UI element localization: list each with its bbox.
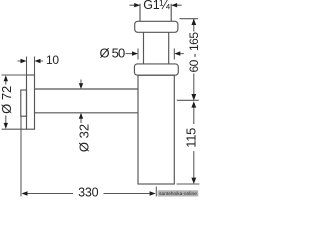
arrow D32 bottom [79,113,83,119]
nut N2 (body union nut) [134,64,178,75]
dimension D32 lines [80,80,82,124]
dimension G1 1/4 lines [130,4,182,6]
dimension 115 bottom extension line [177,183,200,185]
dimension 60-165 line [193,19,195,95]
wall pipe stub [21,90,27,116]
dimension D72 line [5,81,7,124]
dimension 10 extension lines [27,57,35,76]
svg-text:Ø 32: Ø 32 [77,124,92,152]
arrow 330 right [150,191,156,195]
trap cup body [138,75,174,184]
mid pipe between nuts [144,32,169,64]
svg-text:330: 330 [78,186,99,200]
svg-text:Ø 72: Ø 72 [0,86,14,114]
horizontal waste pipe [35,89,139,113]
svg-text:60 - 165: 60 - 165 [187,32,200,73]
arrow 115 bottom [191,178,196,184]
arrow 115 top [191,101,196,107]
dimension 60-165 top extension line [180,18,199,20]
dimension D50 extension lines [138,49,174,60]
svg-text:santehnika-online: santehnika-online [159,191,197,196]
arrow G1 1/4 right [171,3,177,7]
dimension 10 lines [18,60,44,62]
dimension 330 extension line right [155,187,157,197]
arrow D72 bottom [4,123,8,129]
thread tailpiece G1 1/4 pipe walls [140,4,171,22]
arrow 60-165 bottom [191,94,196,101]
arrow 330 left [22,191,28,195]
wall flange escutcheon [27,75,35,129]
arrow G1 1/4 left [134,3,140,7]
arrow D72 top [4,75,8,81]
arrow D32 top [79,83,83,89]
svg-text:Ø 50: Ø 50 [100,45,126,60]
dimension 115 line [193,107,195,178]
dimension 330 lines [28,193,150,195]
dimension D50 lines [126,53,184,55]
svg-text:G1¼: G1¼ [143,0,170,12]
arrow D50 left [132,51,138,55]
arrow 10 left [21,59,27,63]
svg-text:10: 10 [46,53,59,67]
arrow 60-165 top [191,19,196,25]
nut N1 (upper union nut) [135,21,178,32]
arrow 10 right [35,59,41,63]
watermark box bottom right [158,190,199,196]
dimension D72 extension lines [2,75,27,129]
center line extension right [177,99,199,101]
arrow D50 right [174,51,180,55]
svg-text:115: 115 [183,128,198,148]
dimension 330 extension line left [20,116,22,196]
